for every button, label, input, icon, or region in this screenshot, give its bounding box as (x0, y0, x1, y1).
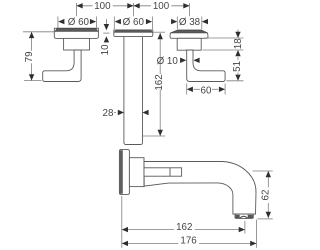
dimension 176 line (122, 242, 178, 244)
dimension 62 ext top (253, 170, 273, 172)
svg-text:18: 18 (233, 38, 244, 49)
svg-text:10: 10 (100, 44, 111, 55)
dimension 100 left line (77, 5, 93, 7)
dimension 162 middle ext bottom (143, 135, 165, 137)
dimension 60 ext left (186, 84, 188, 95)
spout riser pipe (124, 36, 143, 144)
valve body left (64, 38, 90, 50)
svg-text:Ø 38: Ø 38 (179, 17, 201, 28)
dimension 176 ext right (255, 220, 257, 248)
dimension 79 arrows (29, 32, 34, 38)
svg-text:Ø 60: Ø 60 (68, 17, 90, 28)
svg-text:100: 100 (94, 1, 111, 12)
dimension 18-51 ext line3 (227, 80, 244, 82)
dimension 162 middle arrows (158, 33, 163, 39)
spout inner spindle (144, 168, 182, 176)
lever right (187, 50, 225, 82)
dimension 28 stub (114, 112, 116, 114)
escutcheon right body (170, 30, 208, 38)
svg-text:Ø 60: Ø 60 (123, 17, 145, 28)
dimension 100 right arrows (134, 3, 140, 8)
dimension D38 arrows (171, 19, 177, 24)
dimension D60 left ext lines (57, 17, 59, 30)
dimension 62 line (267, 171, 269, 187)
dimension 18 arrow (235, 32, 240, 38)
dimension 51 line2 (237, 73, 239, 75)
wall flange spout (119, 150, 129, 195)
dimension 18-51 ext line1 (204, 37, 244, 39)
dimension 62 arrows (266, 171, 271, 177)
wall flange shading (120, 150, 123, 194)
aerator left shadow (236, 215, 240, 218)
aerator outlet arc (240, 216, 248, 218)
svg-text:60: 60 (201, 86, 212, 97)
svg-text:162: 162 (176, 222, 192, 233)
dimension 18 line (237, 30, 239, 33)
dimension 51 arrow up (235, 50, 240, 56)
dimension 162 bottom arrows (122, 227, 128, 232)
dimension 10 line upper (105, 19, 107, 24)
svg-text:Ø 10: Ø 10 (157, 56, 179, 67)
dimension 176 arrows (122, 241, 128, 246)
dimension 100 right line (134, 5, 151, 7)
aerator body (235, 214, 253, 218)
dimension 60 line (194, 88, 201, 90)
dimension 162-176 ext left (121, 196, 123, 248)
dimension 60 ext right (224, 84, 226, 95)
dimension 162 ext right (244, 221, 246, 234)
dimension 28 arrows (118, 110, 124, 115)
dimension D60 middle arrows (115, 19, 121, 24)
svg-text:176: 176 (180, 236, 197, 247)
dimension 10 tick (103, 32, 109, 34)
dimension D60 left arrows (58, 19, 64, 24)
lever left (43, 50, 81, 82)
valve body right (177, 38, 201, 50)
dimension 162 middle ext top (153, 31, 165, 33)
dimension 162 middle line (159, 33, 161, 74)
escutcheon middle body (114, 30, 153, 37)
dimension 162 bottom line (122, 229, 174, 231)
escutcheon left body (54, 28, 98, 38)
dimension 79 ext bottom (24, 80, 42, 82)
spout body (144, 162, 256, 215)
dimension D38 ext lines (176, 17, 178, 30)
dimension 18-51 ext line2 (203, 49, 244, 51)
dimension 79 ext top (23, 31, 54, 33)
aerator right shadow (248, 215, 253, 218)
centerline right handle (189, 3, 191, 16)
svg-text:51: 51 (232, 61, 243, 72)
spout spindle divider (169, 168, 171, 176)
escutcheon right top band (171, 30, 208, 33)
escutcheon left top band (55, 28, 98, 31)
dimension 10 arrow up (104, 36, 109, 42)
dimension 51 line (237, 57, 239, 60)
dimension 10 arrow down (104, 24, 109, 30)
svg-text:79: 79 (24, 51, 35, 62)
dimension 79 line (31, 32, 33, 51)
spout collar (129, 158, 144, 187)
svg-text:28: 28 (103, 108, 114, 119)
dimension D10 arrows (180, 58, 186, 63)
svg-text:162: 162 (154, 74, 165, 90)
svg-text:62: 62 (261, 190, 272, 201)
centerline spout (133, 3, 135, 16)
dimension 60 arrows (187, 87, 193, 92)
dimension D60 middle ext lines (113, 17, 115, 30)
dimension 62 ext bottom (257, 218, 273, 220)
svg-text:100: 100 (153, 1, 170, 12)
escutcheon middle top band (114, 30, 152, 32)
centerline left handle (76, 3, 78, 16)
dimension 51 arrow down (235, 75, 240, 81)
dimension 100 left arrows (77, 3, 83, 8)
